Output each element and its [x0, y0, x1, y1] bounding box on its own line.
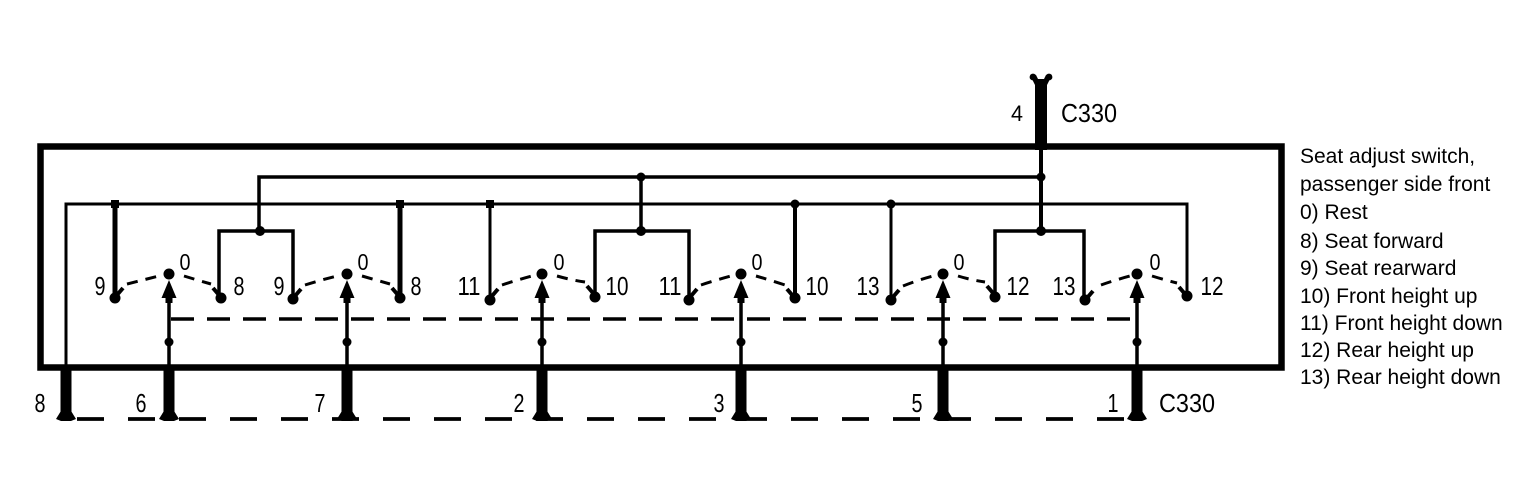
svg-text:13: 13 [857, 271, 880, 301]
svg-text:Seat adjust switch,: Seat adjust switch, [1300, 145, 1475, 168]
switch 2 wiper arrow [340, 280, 355, 366]
wire: bracket joining 10(sw3)+11(sw4) [595, 231, 689, 296]
connector C330 dashed line (bottom) [57, 417, 1143, 421]
wire: line A tap to bracket 2 [639, 177, 643, 231]
svg-text:11: 11 [458, 271, 481, 301]
wire: feed to contact 8 of switch 2 [398, 204, 403, 295]
svg-text:10) Front height up: 10) Front height up [1300, 285, 1477, 308]
svg-text:0: 0 [554, 249, 565, 275]
svg-text:2: 2 [514, 388, 525, 418]
junction tick line B x490 [486, 200, 494, 208]
junction bracket 3 center [1036, 226, 1046, 236]
svg-text:4: 4 [1011, 101, 1023, 126]
svg-text:10: 10 [606, 271, 629, 301]
connector pin 2 terminal [532, 366, 552, 421]
switch 5 wiper arrow [936, 280, 951, 366]
svg-text:0) Rest: 0) Rest [1300, 201, 1368, 224]
wire: bus line A horizontal [259, 177, 1041, 231]
switch 4 contacts 11-0-10 [684, 269, 801, 306]
svg-text:9: 9 [274, 271, 285, 301]
svg-text:passenger side front: passenger side front [1300, 173, 1490, 196]
svg-text:12: 12 [1201, 271, 1224, 301]
switch 1 wiper arrow [162, 280, 177, 366]
junction dot line B x795 [791, 200, 800, 209]
svg-text:0: 0 [180, 249, 191, 275]
svg-text:3: 3 [714, 388, 725, 418]
switch 3 contacts 11-0-10 [485, 269, 601, 306]
svg-text:6: 6 [136, 388, 147, 418]
junction tick line B x400 [396, 200, 404, 208]
wire: feed to contact 10 of switch 4 [793, 204, 797, 296]
svg-text:11: 11 [659, 271, 682, 301]
connector pin 7 terminal [337, 366, 357, 421]
svg-text:12: 12 [1007, 271, 1030, 301]
switch 6 contacts 13-0-12 [1080, 269, 1193, 306]
svg-text:0: 0 [954, 249, 965, 275]
connector pin 5 terminal [933, 366, 953, 421]
svg-text:13: 13 [1053, 271, 1076, 301]
junction on line A at x641 [637, 173, 646, 182]
svg-text:11) Front height down: 11) Front height down [1300, 312, 1503, 335]
wire: feed to contact 11 of switch 3 [489, 204, 492, 296]
svg-text:0: 0 [752, 249, 763, 275]
junction dot line B x891 [887, 200, 896, 209]
connector pin 4 terminal bar [1030, 74, 1053, 150]
junction bracket 1 center [255, 226, 265, 236]
svg-text:13) Rear height down: 13) Rear height down [1300, 366, 1501, 389]
wire: bracket joining 8(sw1)+9(sw2) [219, 231, 293, 296]
connector pin 6 terminal [159, 366, 179, 421]
svg-text:0: 0 [358, 249, 369, 275]
svg-text:12) Rear height up: 12) Rear height up [1300, 339, 1474, 362]
wire: bus line B horizontal [66, 204, 1187, 366]
connector pin 3 terminal [731, 366, 751, 421]
switch 6 wiper arrow [1130, 280, 1145, 366]
switch 1 contacts 9-0-8 [110, 269, 227, 304]
wire: pin 4 vertical into box down to bracket 3 [1039, 147, 1043, 231]
svg-text:8: 8 [234, 271, 245, 301]
svg-text:C330: C330 [1159, 388, 1215, 418]
junction bracket 2 center [636, 226, 646, 236]
switch assembly outline box [41, 147, 1282, 368]
mechanical coupling dashed line [171, 317, 1131, 321]
svg-text:8: 8 [411, 271, 422, 301]
switch 4 wiper arrow [734, 280, 749, 366]
svg-text:9) Seat rearward: 9) Seat rearward [1300, 257, 1456, 280]
svg-text:5: 5 [912, 388, 923, 418]
svg-text:10: 10 [806, 271, 829, 301]
svg-text:0: 0 [1150, 249, 1161, 275]
connector pin 8 terminal [56, 366, 76, 421]
junction on line A at x1041 [1037, 173, 1046, 182]
switch 3 wiper arrow [535, 280, 550, 366]
wire: bracket joining 12(sw5)+13(sw6) [995, 231, 1084, 297]
annotation: component description text [1300, 145, 1503, 389]
connector pin 1 terminal [1127, 366, 1147, 421]
junction tick line B x115 [111, 200, 119, 208]
svg-text:7: 7 [315, 388, 326, 418]
wire: feed to contact 9 of switch 1 [113, 204, 118, 295]
svg-text:C330: C330 [1061, 98, 1117, 128]
svg-text:1: 1 [1108, 388, 1119, 418]
switch 2 contacts 9-0-8 [288, 269, 406, 305]
svg-text:8) Seat forward: 8) Seat forward [1300, 230, 1444, 253]
svg-text:9: 9 [95, 271, 106, 301]
switch 5 contacts 13-0-12 [886, 269, 1001, 306]
svg-text:8: 8 [35, 388, 46, 418]
wire: feed to contact 13 of switch 5 [890, 204, 893, 297]
